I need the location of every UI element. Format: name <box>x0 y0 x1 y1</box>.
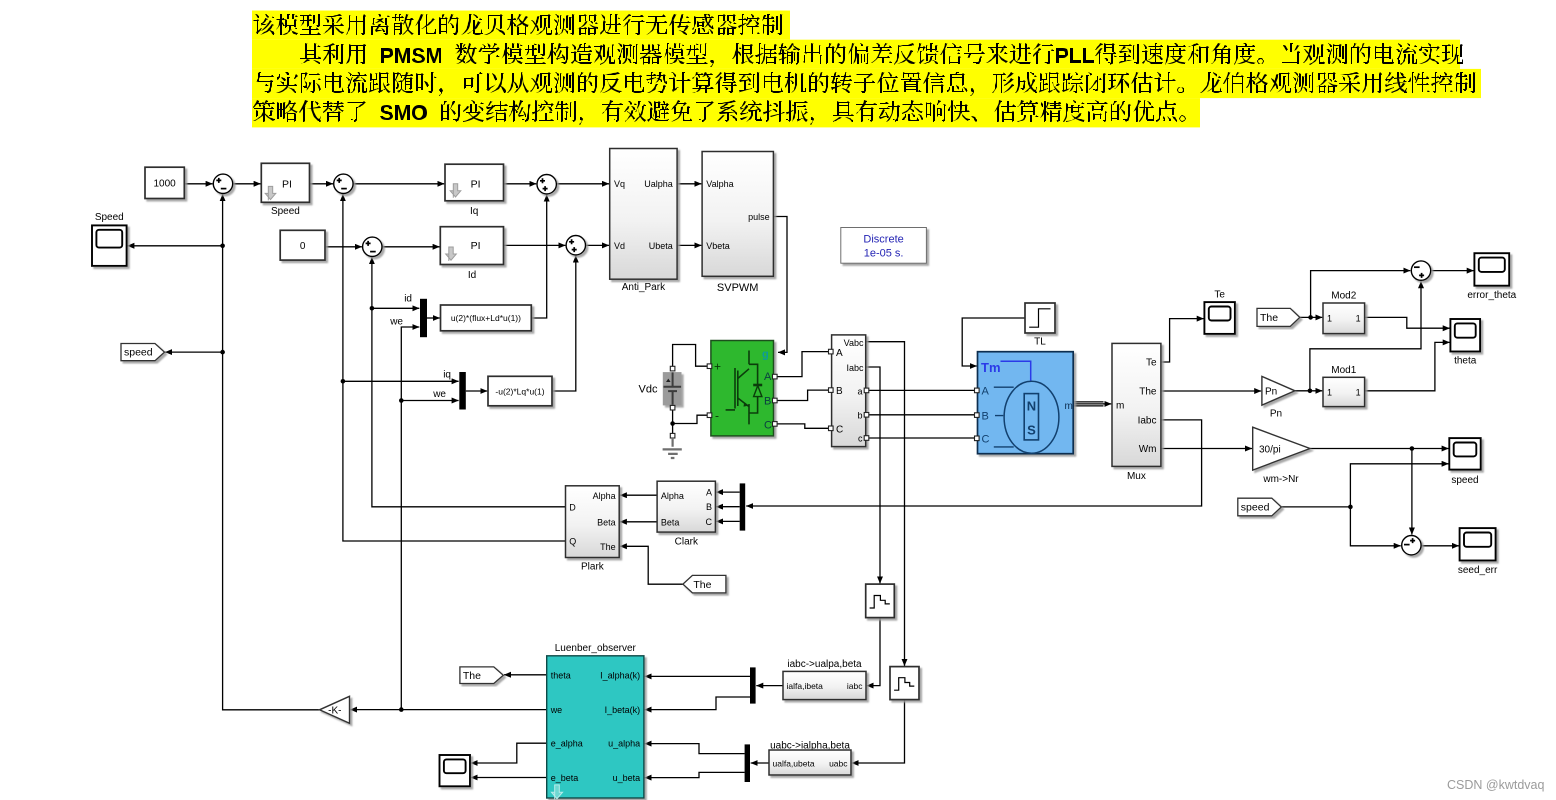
yellow highlight band line1 <box>252 11 790 40</box>
svg-text:N: N <box>1027 398 1036 413</box>
wire meas c to motor C <box>869 437 975 439</box>
node iq tap <box>341 379 346 384</box>
yellow highlight band line4 <box>252 98 1200 127</box>
svg-text:1: 1 <box>1327 314 1332 324</box>
PMSM motor block <box>978 352 1074 454</box>
scope Speed <box>92 225 127 266</box>
svg-text:we: we <box>389 317 403 328</box>
wire observer e_alpha to scope <box>471 743 547 763</box>
svg-text:1e-05 s.: 1e-05 s. <box>864 248 904 260</box>
wire ualfa,ubeta to D3 <box>751 762 769 764</box>
svg-text:Iabc: Iabc <box>846 363 864 373</box>
wire observer e_beta to scope <box>471 777 547 779</box>
svg-text:iq: iq <box>443 370 451 381</box>
wire Clark Alpha to Plark Alpha <box>620 494 657 496</box>
wire fcn1 to S4 bottom <box>531 195 546 318</box>
svg-text:Discrete: Discrete <box>863 233 903 245</box>
wire inverter A to meas A <box>777 352 828 377</box>
yellow highlight band line2 <box>252 40 1460 69</box>
subsystem Plark <box>566 486 620 558</box>
wire D2 to I_beta(k) <box>645 697 750 710</box>
subsystem Anti_Park <box>610 149 677 280</box>
wire TL to motor Tm <box>962 318 1025 366</box>
sum S4 (vq feedforward add) <box>537 175 556 194</box>
wire Vdc minus loop <box>673 410 708 424</box>
wire we vertical to M1 <box>401 327 419 710</box>
svg-text:Clark: Clark <box>675 537 699 548</box>
svg-text:Vd: Vd <box>614 241 625 251</box>
demux D2 (ialfa,ibeta) <box>750 667 756 703</box>
svg-text:we: we <box>432 389 446 400</box>
svg-text:m: m <box>1116 401 1124 412</box>
wire S2 to PI Iq <box>353 183 444 185</box>
svg-text:wm->Nr: wm->Nr <box>1262 474 1299 485</box>
svg-text:Mod2: Mod2 <box>1331 291 1356 302</box>
node Vdc ground node <box>670 421 675 426</box>
wire S3 to PI Id <box>382 246 440 248</box>
wire S4 to Anti_Park Vq <box>556 183 609 185</box>
svg-text:Ubeta: Ubeta <box>649 241 673 251</box>
svg-text:D: D <box>569 502 576 512</box>
node speed tag tap <box>1348 505 1353 510</box>
svg-text:speed: speed <box>1241 502 1270 514</box>
wire Mux Wm to 30/pi <box>1161 448 1252 450</box>
wire node to scope Speed <box>127 245 222 247</box>
wire Vdc plus loop <box>673 345 708 367</box>
svg-text:Alpha: Alpha <box>593 491 616 501</box>
wire observer theta to goto The <box>504 674 547 676</box>
svg-text:iabc: iabc <box>847 681 863 691</box>
gain -K- (pointing left) <box>320 696 350 723</box>
svg-text:S: S <box>1027 423 1036 438</box>
svg-text:Pn: Pn <box>1265 387 1277 398</box>
wire Iabc down to RT1 <box>866 367 880 583</box>
fcn block -u(2)*Lq*u(1) <box>488 376 552 406</box>
ground symbol <box>663 438 682 458</box>
subsystem SVPWM <box>702 152 773 277</box>
wire The tag to Plark The <box>620 546 683 584</box>
mux M1 (id,we) <box>420 299 427 337</box>
annotation Discrete 1e-05 s. <box>841 228 927 264</box>
svg-text:30/pi: 30/pi <box>1259 444 1281 455</box>
three-phase VI measurement block <box>832 335 866 447</box>
svg-text:Beta: Beta <box>597 517 616 527</box>
svg-text:I_beta(k): I_beta(k) <box>605 705 641 715</box>
svg-text:Speed: Speed <box>95 212 124 223</box>
svg-text:theta: theta <box>551 670 571 680</box>
wire S7 to scope seed_err <box>1421 545 1459 547</box>
step block TL <box>1025 303 1055 333</box>
node speed feedback to scope <box>220 244 225 249</box>
wire S6 to scope error_theta <box>1431 270 1474 272</box>
svg-text:error_theta: error_theta <box>1467 290 1516 301</box>
wire The tag to Mod2 <box>1300 316 1323 318</box>
svg-text:Wm: Wm <box>1139 444 1157 455</box>
svg-text:Mux: Mux <box>1127 471 1146 482</box>
gain Pn <box>1262 376 1295 405</box>
goto tag speed (left) <box>121 344 165 361</box>
svg-text:The: The <box>463 670 481 682</box>
svg-text:iabc->ualpa,beta: iabc->ualpa,beta <box>787 659 862 670</box>
svg-text:a: a <box>857 386 862 396</box>
wire M1 to fcn1 <box>427 317 440 319</box>
wire D1 out B to Clark B <box>716 506 740 508</box>
annotation text line4 <box>253 100 1186 125</box>
svg-text:C: C <box>706 517 713 527</box>
svg-text:Beta: Beta <box>661 517 680 527</box>
wire S1 to PI Speed <box>233 183 261 185</box>
wire inverter B to meas B <box>777 390 828 400</box>
svg-text:Mod1: Mod1 <box>1331 365 1356 376</box>
svg-text:pulse: pulse <box>748 212 770 222</box>
svg-text:Id: Id <box>468 270 476 281</box>
svg-text:uabc: uabc <box>829 759 848 769</box>
svg-text:CSDN @kwtdvaq: CSDN @kwtdvaq <box>1447 778 1544 792</box>
svg-text:The: The <box>1139 387 1157 398</box>
wire meas a to motor A <box>869 389 975 391</box>
wire Plark D to S3 bottom <box>372 257 566 507</box>
svg-text:Vbeta: Vbeta <box>706 241 730 251</box>
svg-text:C: C <box>836 424 843 435</box>
sum S6 (theta error) <box>1411 261 1430 280</box>
wire we to M2 <box>401 400 458 402</box>
wire wm tap down to S7 plus <box>1411 449 1413 535</box>
svg-text:Vabc: Vabc <box>844 338 864 348</box>
wire id to M1 <box>372 307 419 309</box>
wire fcn2 to S5 bottom <box>552 256 576 391</box>
wire S5 to Anti_Park Vd <box>586 244 610 246</box>
wire PI Id to S5 <box>504 244 566 246</box>
svg-text:PI: PI <box>471 178 481 190</box>
svg-text:e_beta: e_beta <box>551 773 579 783</box>
svg-text:B: B <box>706 502 712 512</box>
svg-text:TL: TL <box>1034 337 1046 348</box>
svg-text:Anti_Park: Anti_Park <box>622 282 666 293</box>
wire Mod2 to scope theta in1 <box>1365 317 1450 328</box>
svg-text:Te: Te <box>1214 289 1225 300</box>
svg-text:A: A <box>836 348 843 359</box>
svg-text:id: id <box>404 294 412 305</box>
svg-text:ialfa,ibeta: ialfa,ibeta <box>787 681 824 691</box>
svg-text:Ualpha: Ualpha <box>644 179 673 189</box>
scope seed_err <box>1460 528 1496 560</box>
wire PI Iq to S4 <box>504 183 537 185</box>
demux D1 (abc to Clark) <box>740 483 746 530</box>
wire node to goto speed <box>165 351 222 353</box>
svg-text:PI: PI <box>471 240 481 252</box>
wire Pn to Mod1 <box>1295 390 1322 392</box>
wire Anti_Park Ualpha to SVPWM Valpha <box>677 183 701 185</box>
sum S1 (speed error) <box>213 174 232 193</box>
svg-text:1: 1 <box>1356 314 1361 324</box>
svg-text:1: 1 <box>1327 387 1332 397</box>
node Mod1 input tap <box>1308 389 1313 394</box>
svg-text:SVPWM: SVPWM <box>717 282 759 294</box>
svg-text:seed_err: seed_err <box>1458 565 1498 576</box>
wire 30/pi to scope speed <box>1310 448 1449 450</box>
svg-text:1000: 1000 <box>153 179 176 190</box>
sum S5 (vd feedforward add) <box>566 236 585 255</box>
wire 0 to S3 <box>325 246 362 248</box>
svg-text:The: The <box>693 579 711 591</box>
svg-text:A: A <box>982 386 990 398</box>
svg-text:A: A <box>764 371 772 383</box>
constant block 0 <box>280 230 325 260</box>
svg-text:Valpha: Valpha <box>706 179 733 189</box>
wire D3 to u_alpha <box>645 744 745 754</box>
rate transition RT2 <box>890 667 919 700</box>
scope e_alpha/e_beta <box>440 755 471 786</box>
svg-text:we: we <box>550 705 563 715</box>
wire iq to M2 <box>343 380 459 382</box>
wire D1 out A to Clark A <box>716 491 740 493</box>
from tag speed (right) <box>1238 498 1282 516</box>
svg-text:Q: Q <box>569 537 576 547</box>
node id tap <box>370 306 375 311</box>
yellow highlight band line3 <box>252 69 1481 98</box>
scope error_theta <box>1474 253 1509 286</box>
svg-text:Tm: Tm <box>981 360 1001 375</box>
svg-text:u_alpha: u_alpha <box>608 739 640 749</box>
wire D3 to u_beta <box>645 772 745 777</box>
svg-text:theta: theta <box>1454 356 1477 367</box>
wire Anti_Park Ubeta to SVPWM Vbeta <box>677 244 701 246</box>
annotation text line2 <box>300 43 1463 67</box>
wire meas b to motor B <box>869 414 975 416</box>
annotation text line3 <box>254 72 1476 96</box>
node Mod2 input tap <box>1308 315 1313 320</box>
fcn block u(2)*(flux+Ld*u(1)) <box>441 305 532 331</box>
node speed feedback to goto <box>220 350 225 355</box>
svg-text:c: c <box>858 434 863 444</box>
svg-text:The: The <box>600 542 616 552</box>
PI controller Id <box>440 227 503 265</box>
svg-text:+: + <box>714 360 721 374</box>
wire -K- to S1 bottom feedback <box>223 194 320 710</box>
svg-text:C: C <box>764 420 772 432</box>
gain 30/pi <box>1253 427 1310 470</box>
wire ialfa,ibeta to D2 <box>756 685 783 687</box>
svg-text:Plark: Plark <box>581 562 605 573</box>
svg-text:-K-: -K- <box>328 705 341 716</box>
wire Clark Beta to Plark Beta <box>620 521 657 523</box>
svg-text:-u(2)*Lq*u(1): -u(2)*Lq*u(1) <box>495 386 544 396</box>
svg-text:speed: speed <box>124 347 153 359</box>
wire Mux Te to scope Te <box>1161 319 1204 362</box>
node we tap M2 <box>399 398 404 403</box>
from tag The (middle, pointing left) <box>683 575 726 593</box>
wire Mux The to Pn <box>1161 390 1261 392</box>
svg-text:B: B <box>982 410 989 422</box>
node wm tap <box>1410 446 1415 451</box>
annotation text line1 <box>253 14 783 35</box>
svg-text:u(2)*(flux+Ld*u(1)): u(2)*(flux+Ld*u(1)) <box>451 313 521 323</box>
scope theta <box>1450 319 1480 352</box>
svg-text:Iq: Iq <box>470 206 478 217</box>
svg-text:Luenber_observer: Luenber_observer <box>555 643 637 654</box>
wire RT2 to uabc input <box>852 700 905 763</box>
wire tap up to scope speed in2 <box>1350 464 1448 507</box>
goto tag The (observer output) <box>460 667 503 684</box>
svg-text:Vdc: Vdc <box>639 383 658 395</box>
wire D1 out C to Clark C <box>716 520 740 522</box>
svg-text:Pn: Pn <box>1270 409 1282 420</box>
svg-text:I_alpha(k): I_alpha(k) <box>600 670 640 680</box>
svg-text:ualfa,ubeta: ualfa,ubeta <box>773 759 815 769</box>
wire motor m to Mux (bus) <box>1073 402 1103 406</box>
sum S3 (id error) <box>363 237 382 256</box>
wire observer we to -K- <box>350 709 547 711</box>
svg-text:e_alpha: e_alpha <box>551 739 583 749</box>
svg-text:Speed: Speed <box>271 206 300 217</box>
svg-text:Vq: Vq <box>614 179 625 189</box>
svg-text:B: B <box>836 386 843 397</box>
mux M2 (iq,we) <box>459 372 466 410</box>
svg-text:1: 1 <box>1356 387 1361 397</box>
wire D2 to I_alpha(k) <box>645 675 750 677</box>
wire M2 to fcn2 <box>466 390 488 392</box>
svg-text:The: The <box>1260 312 1278 324</box>
svg-text:speed: speed <box>1451 475 1478 486</box>
constant block 1000 <box>145 167 184 198</box>
wire speed tag to tap <box>1281 506 1350 508</box>
node we tap gain <box>399 707 404 712</box>
wire Mod2 tap up to S6 minus <box>1311 271 1411 318</box>
svg-text:PI: PI <box>282 178 292 190</box>
from tag The (right side) <box>1257 308 1300 326</box>
svg-text:A: A <box>706 488 712 498</box>
svg-text:m: m <box>1065 401 1073 412</box>
DC source Vdc <box>663 372 682 405</box>
wire Vabc down to RT2 <box>866 342 905 666</box>
wire PI Speed to S2 <box>310 183 334 185</box>
sum S2 (iq error) <box>334 174 353 193</box>
wire ground stub <box>672 424 674 434</box>
PI controller Speed <box>261 163 309 202</box>
svg-text:b: b <box>857 410 862 420</box>
wire RT1 to iabc input <box>867 618 880 686</box>
demux D3 (ualfa,ubeta) <box>745 744 750 782</box>
wire tap down to S7 minus <box>1350 507 1400 546</box>
PI controller Iq <box>445 164 504 201</box>
svg-text:g: g <box>762 348 769 360</box>
svg-text:C: C <box>982 434 990 446</box>
svg-text:B: B <box>764 395 771 407</box>
wire SVPWM pulse to inverter g <box>773 217 787 353</box>
svg-text:u_beta: u_beta <box>613 773 641 783</box>
wire Mod1 to scope theta in2 <box>1365 342 1450 390</box>
svg-text:-: - <box>715 409 719 423</box>
svg-text:Alpha: Alpha <box>661 491 684 501</box>
scope speed (right) <box>1449 438 1480 470</box>
sum S7 (speed error display) <box>1402 536 1421 555</box>
scope Te <box>1204 302 1235 334</box>
inverter bridge (green) <box>711 341 774 436</box>
svg-text:Iabc: Iabc <box>1138 416 1157 427</box>
Mux bus selector block <box>1112 343 1161 466</box>
svg-text:Te: Te <box>1146 358 1157 369</box>
wire Mod1 tap up to S6 plus <box>1310 281 1421 391</box>
wire 1000 to S1 <box>184 183 212 185</box>
svg-text:0: 0 <box>300 241 306 252</box>
wire Mux Iabc to demux D1 <box>746 420 1201 506</box>
wire Plark Q to S2 bottom <box>343 194 566 541</box>
wire inverter C to meas C <box>777 424 828 428</box>
subsystem Clark <box>657 481 715 532</box>
rate transition RT1 <box>866 584 895 618</box>
